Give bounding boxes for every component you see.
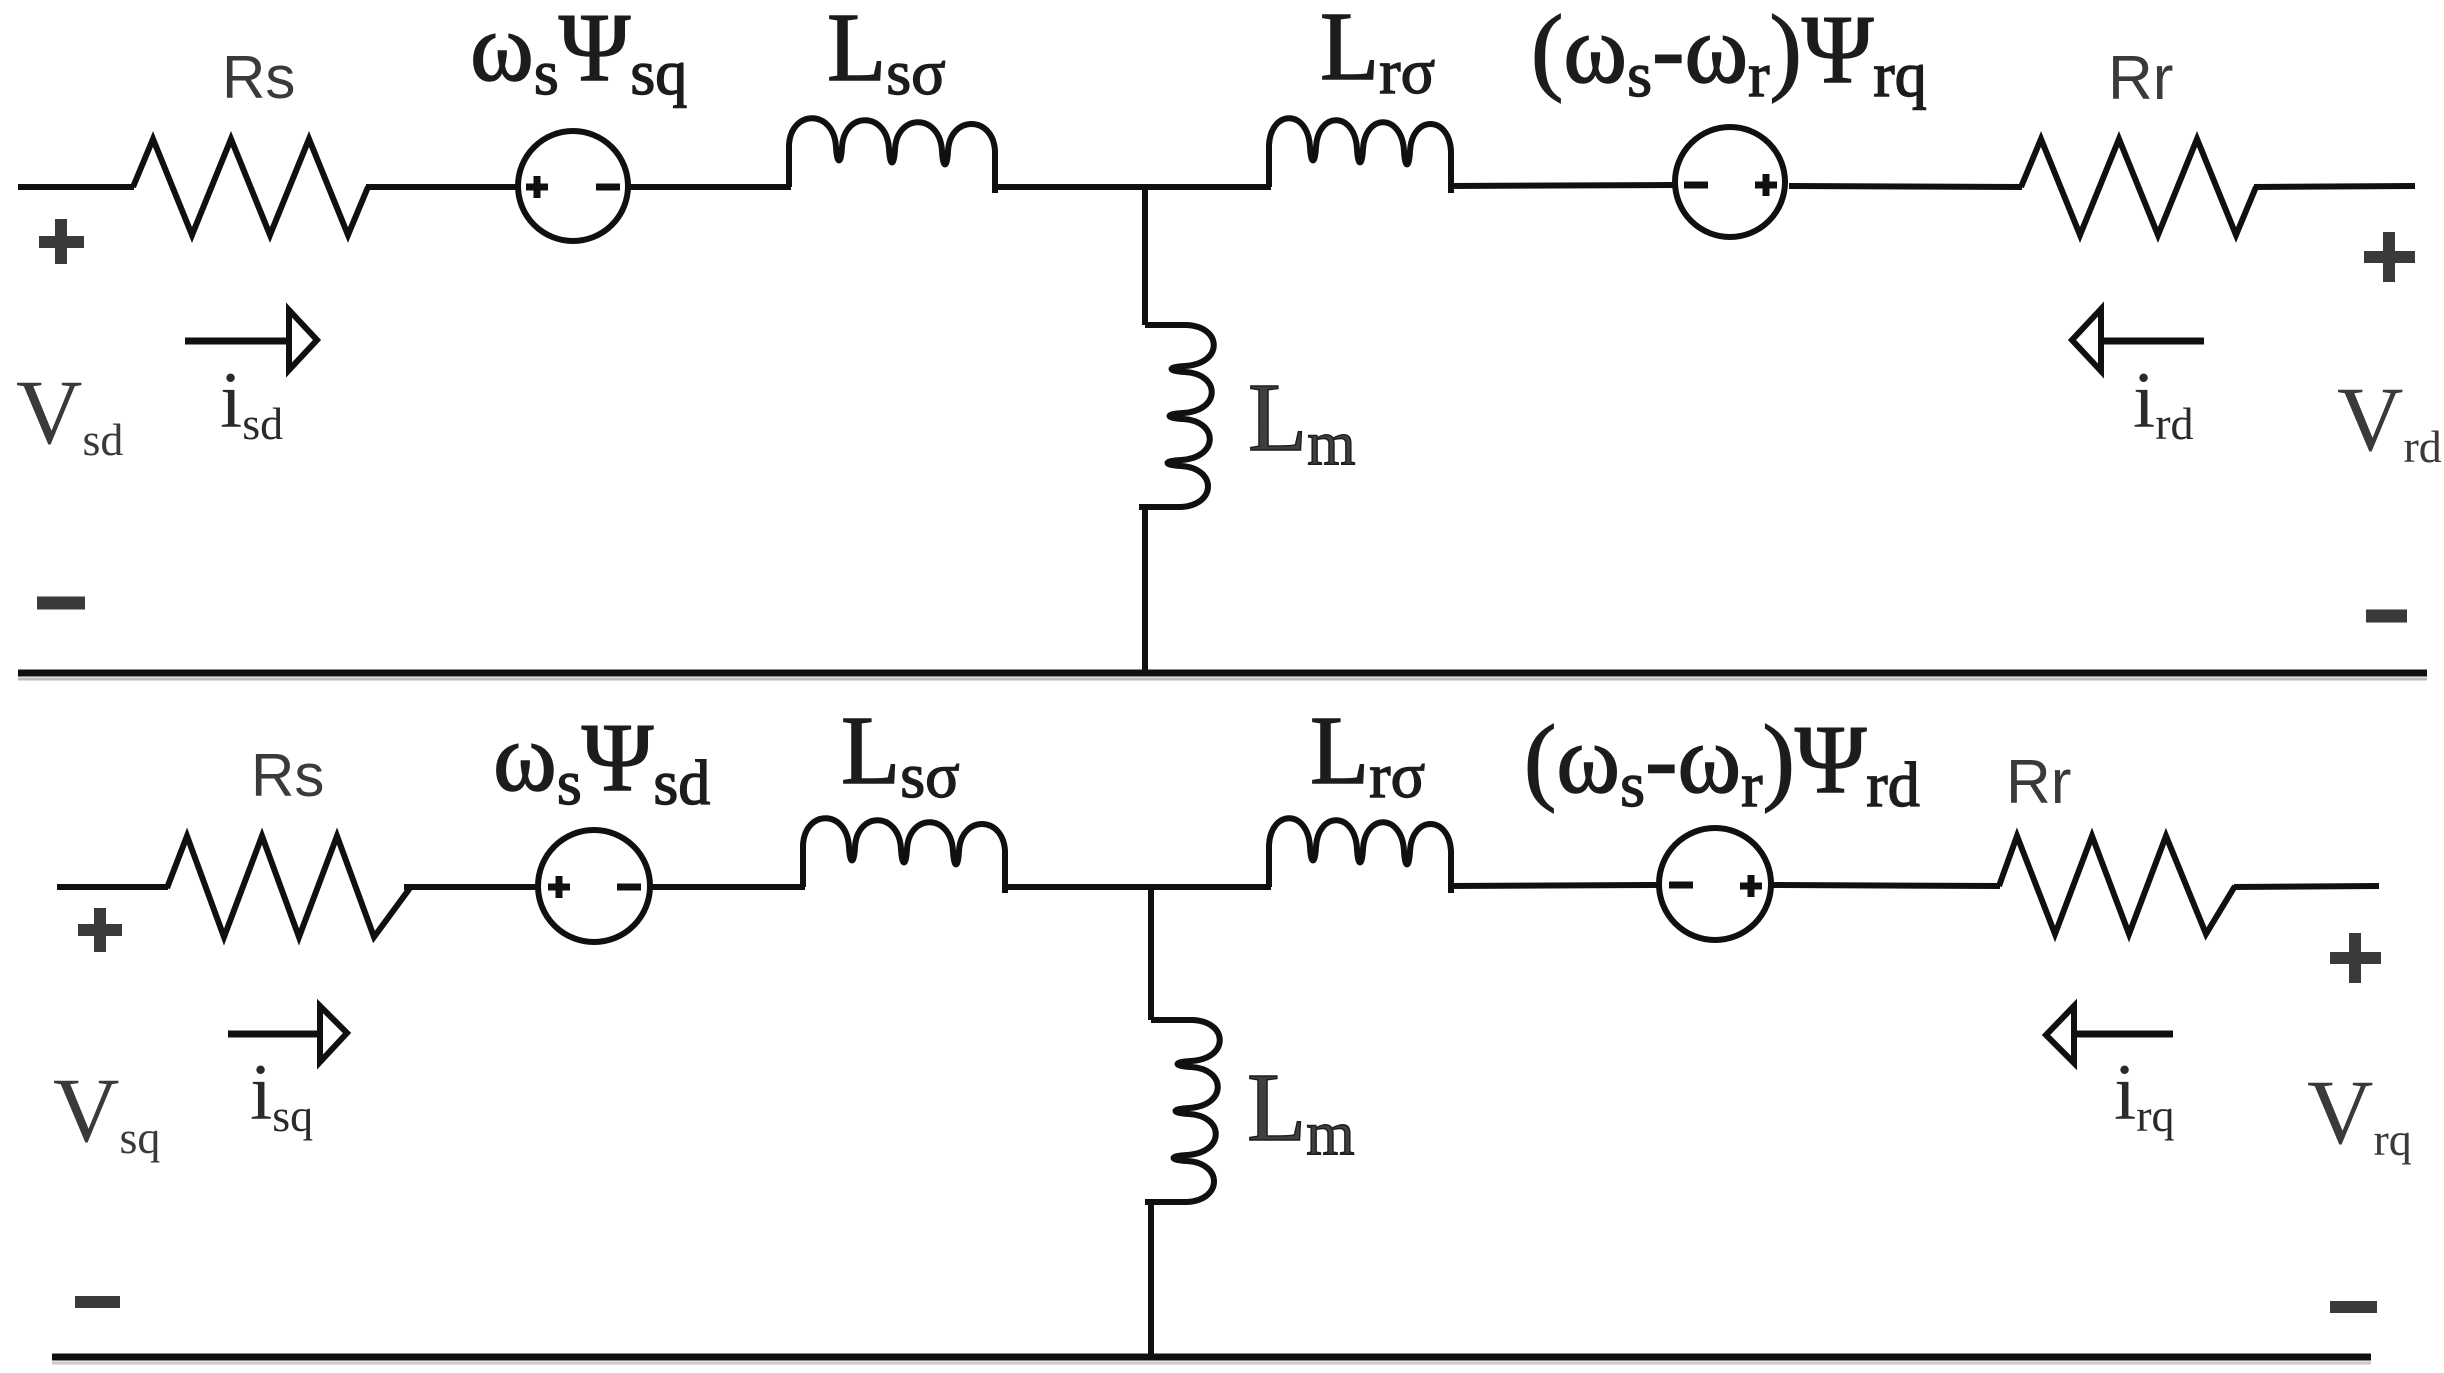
- terminal top-right (Vrd) — [2366, 610, 2407, 623]
wire: Lsσ to Lrσ through node — [994, 184, 1271, 190]
current arrow isd — [185, 310, 317, 370]
+ terminal top-left (Vsd) — [39, 236, 84, 248]
resistor Rr (rotor, q-axis) — [1999, 836, 2235, 934]
polarity + inside source (left) — [526, 176, 548, 198]
svg-text:irq: irq — [2114, 1049, 2175, 1141]
wire: source 2 to Rr — [1789, 186, 2022, 187]
+ terminal bottom-right (Vrq) — [2330, 952, 2381, 964]
inductor Lsσ (stator leakage, q-axis) — [803, 818, 1005, 893]
wire: Lrσ to source 2 (q-axis) — [1449, 885, 1659, 886]
wire: Rr to bottom-right terminal — [2234, 886, 2379, 887]
svg-text:Vrq: Vrq — [2307, 1061, 2412, 1165]
svg-text:(ωs-ωr)Ψrq: (ωs-ωr)Ψrq — [1531, 0, 1927, 110]
wire: Rs to source (q-axis) — [404, 884, 539, 890]
- terminal top-left (Vsd) — [37, 597, 85, 610]
svg-text:Lm: Lm — [1248, 364, 1356, 478]
wire: Lsσ to Lrσ through node (q-axis) — [1006, 884, 1271, 890]
inductor Lrσ (rotor leakage, d-axis) — [1269, 118, 1451, 193]
svg-text:Vsd: Vsd — [16, 361, 123, 465]
resistor Rs (stator, q-axis) — [167, 836, 410, 937]
- terminal bottom-left (Vsq) — [75, 1296, 120, 1308]
magnetizing inductor Lm (d-axis): node drop — [1142, 187, 1148, 325]
magnetizing inductor Lm (d-axis): lower lead to rail — [1142, 507, 1148, 674]
wire: source 2 to Rr (q-axis) — [1773, 885, 2000, 886]
middle rail (shared return of d-axis circuit) — [18, 670, 2427, 677]
polarity + inside source 2 (right, q-axis rotor) — [1740, 875, 1762, 897]
inductor Lsσ (stator leakage, d-axis) — [789, 118, 995, 193]
svg-text:ωsΨsd: ωsΨsd — [493, 704, 710, 818]
dependent voltage source (ws-wr)Prq (circle) — [1675, 127, 1785, 237]
magnetizing inductor Lm (q-axis): node drop — [1148, 887, 1154, 1020]
inductor Lrσ (rotor leakage, q-axis) — [1269, 818, 1451, 893]
dependent voltage source (ws-wr)Prd (circle) — [1659, 828, 1771, 940]
svg-text:ird: ird — [2133, 357, 2194, 449]
bottom rail (shared return of q-axis circuit) — [52, 1354, 2371, 1361]
wire: bottom-left terminal to Rs — [57, 884, 168, 890]
svg-text:Rs: Rs — [251, 742, 324, 809]
polarity - inside source (right, q-axis stator) — [617, 884, 641, 891]
svg-text:Lrσ: Lrσ — [1320, 0, 1435, 107]
current arrow isq — [228, 1006, 347, 1062]
+ terminal top-right (Vrd) — [2364, 251, 2415, 263]
magnetizing inductor Lm (d-axis): coil — [1139, 325, 1214, 507]
magnetizing inductor Lm (q-axis): coil — [1145, 1020, 1220, 1202]
polarity - inside source (right) — [596, 184, 620, 191]
wire: Lrσ to source 2 — [1449, 185, 1673, 186]
svg-text:Rr: Rr — [2108, 44, 2173, 113]
wire: source to Lsσ (q-axis) — [650, 884, 805, 890]
wire: Rs to source — [366, 184, 516, 190]
wire: Rr to top-right terminal — [2254, 186, 2415, 187]
svg-text:Vrd: Vrd — [2337, 368, 2442, 472]
resistor Rs (stator, d-axis) — [133, 139, 368, 235]
+ terminal bottom-left (Vsq) — [78, 924, 122, 936]
svg-text:Lrσ: Lrσ — [1310, 697, 1425, 811]
svg-text:Lsσ: Lsσ — [827, 0, 946, 108]
svg-text:Rs: Rs — [222, 44, 295, 111]
svg-text:Vsq: Vsq — [53, 1059, 160, 1163]
wire: top-left terminal to Rs — [18, 184, 134, 190]
svg-text:ωsΨsq: ωsΨsq — [470, 0, 687, 108]
svg-text:Lm: Lm — [1247, 1054, 1355, 1168]
svg-text:isq: isq — [250, 1049, 313, 1141]
polarity + inside source 2 (right) — [1755, 174, 1777, 196]
svg-text:Rr: Rr — [2006, 748, 2071, 817]
svg-text:Lsσ: Lsσ — [841, 697, 960, 811]
polarity - inside source 2 (left) — [1684, 182, 1708, 189]
svg-text:isd: isd — [220, 357, 283, 449]
polarity + inside source (left, q-axis stator) — [548, 876, 570, 898]
current arrow irq — [2046, 1006, 2173, 1063]
dependent voltage source wsPsd (circle) — [538, 830, 650, 942]
polarity - inside source 2 (left, q-axis rotor) — [1669, 882, 1693, 889]
dependent voltage source wsPsq (circle) — [518, 131, 628, 241]
- terminal bottom-right (Vrq) — [2330, 1301, 2377, 1313]
svg-text:(ωs-ωr)Ψrd: (ωs-ωr)Ψrd — [1524, 706, 1920, 820]
current arrow ird — [2072, 309, 2204, 371]
resistor Rr (rotor, d-axis) — [2021, 139, 2256, 235]
wire: source to Lsσ — [630, 184, 791, 190]
magnetizing inductor Lm (q-axis): lower lead to rail — [1148, 1202, 1154, 1357]
